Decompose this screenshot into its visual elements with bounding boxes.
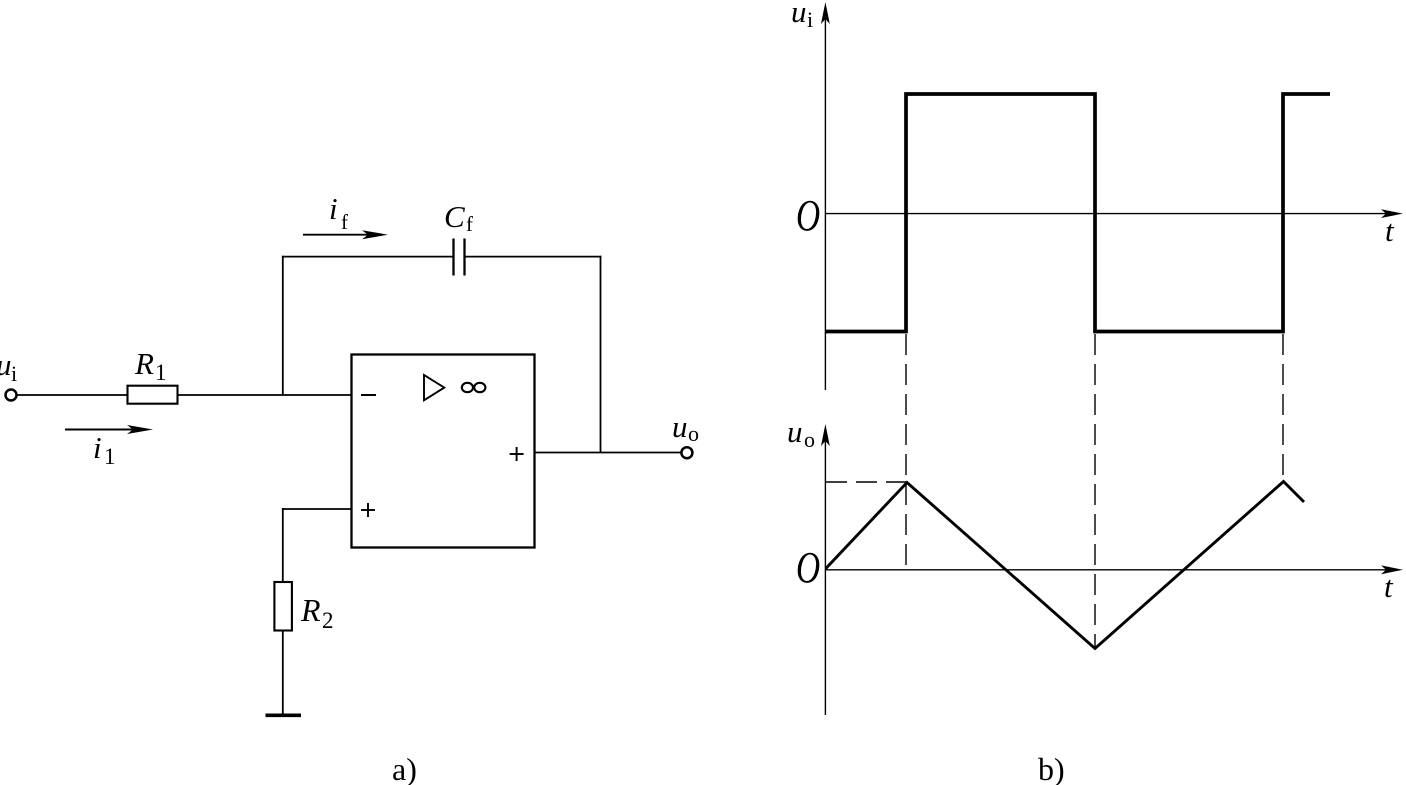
svg-text:u: u [787,414,803,449]
label u_i axis [791,0,813,32]
wire noninverting vertical to R2 [282,508,284,582]
svg-text:u: u [672,409,688,444]
label u_o axis [787,414,815,452]
svg-text:i: i [93,430,102,465]
svg-text:1: 1 [155,360,167,385]
ground [266,713,302,717]
wire feedback left vertical [282,256,284,395]
svg-text:u: u [0,347,12,382]
capacitor Cf [454,239,465,276]
uo vertical axis [821,424,830,715]
op-amp gain triangle [424,375,444,400]
ui horizontal t axis [825,209,1403,218]
resistor R1 [128,386,178,404]
wire feedback right vertical [600,256,602,453]
dashed peak level line [826,481,906,483]
dashed projection line 2 [1094,334,1096,648]
svg-text:2: 2 [322,608,334,633]
svg-text:t: t [1384,569,1394,604]
wire output [535,452,682,454]
wire feedback top right [465,256,602,258]
svg-text:O: O [796,192,820,240]
op-amp output plus sign [510,447,524,461]
label Cf [444,199,473,236]
op-amp inverting input minus sign [361,394,376,396]
svg-text:a): a) [392,751,417,785]
arrow if [303,230,388,239]
label i1 [93,430,116,469]
dashed projection line 1 [905,334,907,569]
wire R1 to op-amp inverting input [178,394,352,396]
op-amp noninverting plus sign [361,503,375,517]
wire feedback top left [282,256,454,258]
svg-text:i: i [807,7,813,32]
uo horizontal t axis [825,565,1403,574]
resistor R2 [274,582,292,631]
svg-text:C: C [444,199,465,234]
svg-text:o: o [688,421,699,446]
label u_o output [672,409,699,446]
wire input to R1 [17,394,128,396]
terminal output circle [681,447,692,458]
svg-text:O: O [796,544,820,592]
svg-text:R: R [134,346,154,381]
arrow i1 [65,425,153,434]
ui vertical axis [821,2,830,390]
svg-text:R: R [300,592,321,628]
op-amp U1 box [352,355,535,548]
svg-text:i: i [11,361,17,386]
svg-text:f: f [466,212,473,236]
dashed projection line 3 [1282,334,1284,477]
svg-text:t: t [1385,213,1395,248]
label R2 [300,592,334,633]
svg-text:i: i [329,191,338,226]
square wave ui [826,94,1330,332]
svg-text:o: o [804,427,815,452]
wire noninverting input horizontal [282,508,352,510]
op-amp infinity symbol [462,383,486,392]
svg-text:b): b) [1038,751,1065,785]
svg-text:1: 1 [104,444,116,469]
svg-text:u: u [791,0,807,29]
wire R2 to ground [282,630,284,715]
label u_i input [0,347,17,386]
label R1 [134,346,167,385]
triangle wave uo [826,482,1304,649]
terminal input circle [6,390,17,401]
label if [329,191,348,234]
svg-text:f: f [341,210,348,234]
